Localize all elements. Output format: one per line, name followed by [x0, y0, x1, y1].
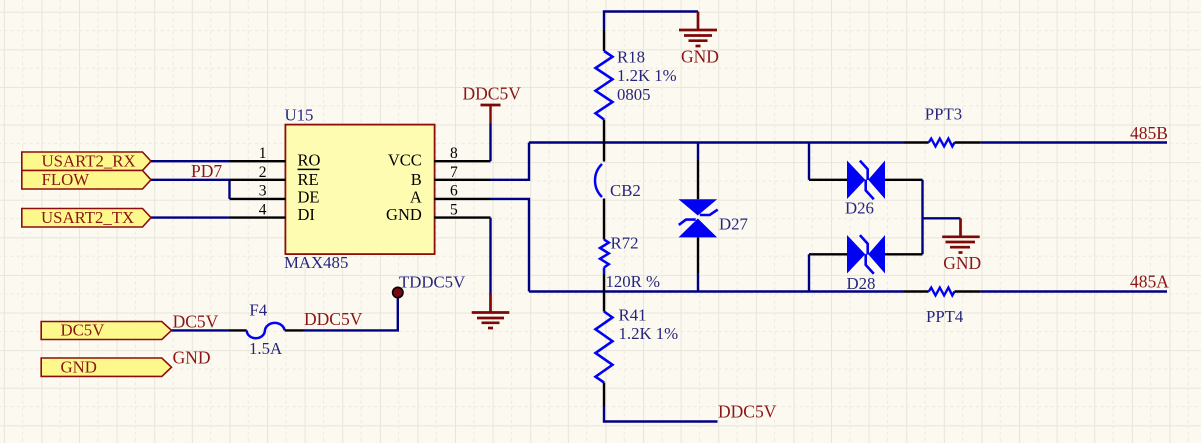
svg-text:GND: GND — [173, 348, 211, 368]
svg-text:3: 3 — [259, 183, 267, 200]
svg-text:R41: R41 — [619, 306, 647, 325]
svg-text:GND: GND — [681, 47, 719, 67]
wire 485B line — [529, 141, 1167, 143]
wire branch to pin3 — [228, 180, 230, 199]
svg-text:B: B — [411, 170, 422, 189]
wire D26 left riser — [808, 143, 810, 180]
wire pin6 A to 485A — [491, 199, 530, 292]
wire D27 top riser — [697, 143, 699, 161]
wire D27 bottom riser — [697, 274, 699, 292]
wire D28 left riser — [808, 254, 810, 291]
wire right vertical D26-D28 — [921, 180, 923, 255]
svg-text:4: 4 — [259, 201, 267, 218]
ground GND near D26 — [942, 218, 981, 273]
svg-text:RO: RO — [298, 151, 321, 170]
ground GND top right of R18 — [679, 12, 719, 67]
wire DDC5V run — [304, 299, 398, 331]
svg-text:GND: GND — [386, 205, 422, 224]
svg-text:1.2K 1%: 1.2K 1% — [619, 324, 679, 343]
svg-text:120R %: 120R % — [606, 272, 661, 291]
svg-text:USART2_RX: USART2_RX — [42, 152, 136, 171]
resistor R18 — [596, 30, 677, 143]
svg-text:R72: R72 — [611, 234, 639, 253]
pin 5 GND — [386, 201, 490, 224]
wire R41 bottom to DDC5V — [604, 407, 718, 422]
svg-text:1: 1 — [259, 145, 267, 162]
svg-text:F4: F4 — [249, 301, 267, 320]
fuse PPT3 — [904, 105, 981, 147]
svg-text:6: 6 — [450, 183, 458, 200]
svg-text:2: 2 — [259, 164, 267, 181]
svg-text:PD7: PD7 — [191, 161, 222, 181]
svg-text:USART2_TX: USART2_TX — [41, 208, 134, 227]
wire USART2_TX to pin4 — [151, 216, 230, 218]
pin 6 A — [410, 183, 491, 207]
transient diode D27 — [679, 160, 748, 274]
fuse PPT4 — [904, 288, 981, 326]
svg-text:D27: D27 — [719, 215, 748, 234]
svg-text:PPT3: PPT3 — [925, 105, 962, 124]
wire USART2_RX to pin1 — [151, 160, 230, 162]
fuse CB2 — [595, 143, 641, 240]
svg-text:GND: GND — [61, 357, 97, 376]
test point TDDC5V — [393, 273, 466, 299]
svg-text:1.2K 1%: 1.2K 1% — [617, 66, 677, 85]
svg-text:DI: DI — [298, 205, 315, 224]
pin 3 DE — [230, 183, 320, 207]
svg-text:DC5V: DC5V — [61, 321, 105, 340]
port DC5V — [41, 321, 171, 340]
transient diode D28 — [809, 235, 923, 293]
wire pin7 B to 485B — [491, 143, 530, 180]
svg-text:5: 5 — [450, 201, 458, 218]
wire DC5V port to fuse — [172, 329, 230, 331]
resistor R72 — [600, 234, 660, 292]
pin 4 DI — [230, 201, 315, 224]
svg-text:485A: 485A — [1130, 272, 1169, 292]
wire 485A line — [529, 290, 1167, 292]
ground symbol under pin5 — [472, 294, 510, 328]
op-amp U15 MAX485 body — [284, 105, 435, 271]
svg-text:DDC5V: DDC5V — [718, 402, 777, 422]
pin 2 RE — [230, 164, 320, 189]
svg-text:0805: 0805 — [617, 85, 651, 104]
wire pin5 GND down — [489, 218, 491, 295]
wire R18 top to GND — [604, 12, 698, 31]
svg-text:TDDC5V: TDDC5V — [399, 273, 465, 292]
port GND — [41, 357, 171, 376]
pin 1 RO — [230, 145, 321, 170]
svg-text:DDC5V: DDC5V — [463, 84, 522, 104]
svg-text:RE: RE — [298, 170, 319, 189]
svg-text:1.5A: 1.5A — [249, 339, 282, 358]
svg-text:D28: D28 — [847, 274, 876, 293]
svg-text:CB2: CB2 — [610, 181, 641, 200]
svg-text:A: A — [410, 187, 422, 206]
svg-text:FLOW: FLOW — [42, 170, 90, 189]
wire GND tap — [923, 217, 961, 219]
svg-text:8: 8 — [450, 145, 458, 162]
port FLOW — [22, 170, 151, 189]
svg-text:PPT4: PPT4 — [926, 307, 964, 326]
wire FLOW to pin2 — [151, 179, 230, 181]
pin 7 B — [411, 164, 491, 189]
svg-text:DC5V: DC5V — [173, 312, 219, 332]
transient diode D26 — [809, 161, 923, 218]
svg-text:D26: D26 — [845, 199, 874, 218]
svg-text:GND: GND — [943, 253, 981, 273]
svg-text:R18: R18 — [617, 47, 645, 66]
fuse F4 — [229, 301, 304, 359]
resistor R41 — [596, 292, 679, 407]
svg-text:DDC5V: DDC5V — [304, 309, 363, 329]
port USART2_TX — [22, 208, 151, 227]
pin 8 VCC — [388, 145, 491, 170]
svg-text:VCC: VCC — [388, 151, 422, 170]
wire VCC riser — [489, 124, 491, 162]
port USART2_RX — [22, 152, 151, 171]
svg-text:7: 7 — [450, 164, 458, 181]
power port DDC5V above VCC — [463, 84, 522, 124]
svg-text:U15: U15 — [285, 105, 314, 124]
svg-text:MAX485: MAX485 — [284, 253, 348, 272]
svg-text:485B: 485B — [1130, 123, 1168, 143]
svg-text:DE: DE — [298, 187, 320, 206]
